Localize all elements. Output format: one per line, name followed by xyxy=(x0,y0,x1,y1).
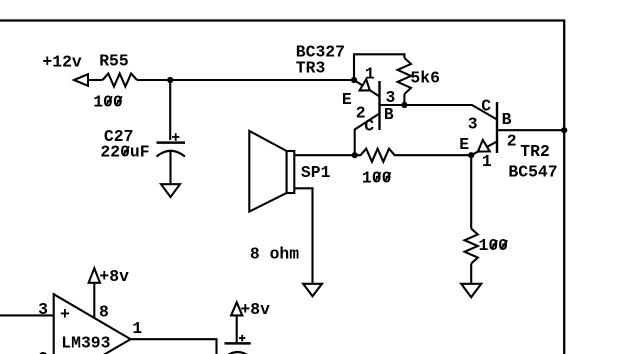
resistor 100 (emitter) xyxy=(465,229,478,264)
transistor TR2 emitter arrow xyxy=(478,140,490,152)
node junction C27 tap xyxy=(167,77,173,83)
+12v power arrow xyxy=(74,74,88,86)
svg-text:2: 2 xyxy=(38,349,48,354)
node TR2 emitter junction xyxy=(468,152,474,158)
svg-text:+8v: +8v xyxy=(240,300,270,319)
transistor TR3 base bar xyxy=(378,81,380,130)
wire input pin 3 xyxy=(0,314,54,316)
wire down to C27 xyxy=(169,80,171,140)
op-amp U1 LM393 triangle xyxy=(54,294,131,354)
svg-text:LM393: LM393 xyxy=(61,334,110,353)
resistor R55 xyxy=(103,74,138,87)
resistor 100 (base drive) xyxy=(355,149,472,162)
svg-text:+12v: +12v xyxy=(42,52,82,71)
node TR3 emitter junction xyxy=(351,77,357,83)
transistor TR2 emitter lead xyxy=(471,142,497,156)
svg-text:1: 1 xyxy=(482,152,492,171)
speaker SP1 driver xyxy=(287,151,295,193)
+8v power arrow (decoupling cap) xyxy=(231,302,242,315)
resistor 5k6 xyxy=(398,58,411,94)
slash zeros 100 base xyxy=(375,172,391,181)
svg-text:R55: R55 xyxy=(99,51,129,70)
wire speaker top terminal xyxy=(294,154,354,156)
wire op-amp output pin 1 xyxy=(131,339,217,354)
svg-text:8 ohm: 8 ohm xyxy=(250,244,299,263)
svg-text:E: E xyxy=(459,135,469,154)
node speaker/collector junction xyxy=(352,152,358,158)
svg-text:3: 3 xyxy=(38,300,48,319)
svg-text:1: 1 xyxy=(365,64,375,83)
ground (SP1) xyxy=(303,284,322,296)
+8v power arrow (op-amp) xyxy=(89,268,100,283)
wire TR2 emitter down to 100 xyxy=(470,155,472,228)
wire op-amp power pin 8 xyxy=(93,283,95,318)
transistor TR3 emitter lead xyxy=(354,80,380,97)
wire 5k6 to base rail xyxy=(403,94,405,105)
svg-text:C: C xyxy=(481,96,491,115)
ground (C27) xyxy=(161,184,180,197)
node base/right rail junction xyxy=(561,127,567,133)
wire 100 to ground xyxy=(470,264,472,284)
svg-text:B: B xyxy=(502,110,512,129)
svg-text:B: B xyxy=(384,105,394,124)
ground (emitter resistor) xyxy=(461,284,481,297)
svg-text:SP1: SP1 xyxy=(301,163,331,182)
wire +8v to cap xyxy=(236,315,238,343)
slash zero 220uF xyxy=(123,146,129,155)
wire TR3 base rail to TR2 collector xyxy=(380,105,498,120)
wire C27 to ground xyxy=(169,151,171,184)
capacitor plus mark xyxy=(239,335,245,341)
node 5k6/base junction xyxy=(401,102,407,108)
capacitor top plate xyxy=(225,342,251,345)
svg-text:2: 2 xyxy=(507,132,517,151)
capacitor C27 top plate xyxy=(157,141,186,144)
capacitor C27 plus mark xyxy=(172,133,179,141)
svg-text:8: 8 xyxy=(99,303,109,322)
wire TR3 emitter node up-over to 5k6 xyxy=(354,54,404,80)
wire R55 to TR3 emitter node xyxy=(137,79,354,81)
svg-text:1: 1 xyxy=(132,319,142,338)
svg-text:+8v: +8v xyxy=(99,267,129,286)
svg-text:TR3: TR3 xyxy=(296,58,326,77)
speaker SP1 cone xyxy=(249,131,286,212)
capacitor curved plate xyxy=(225,352,251,354)
capacitor C27 curved plate xyxy=(157,151,185,157)
svg-text:BC547: BC547 xyxy=(508,163,557,182)
transistor TR2 base bar xyxy=(496,102,498,153)
transistor TR3 emitter arrow xyxy=(360,79,370,90)
wire arrow to R55 xyxy=(87,79,103,81)
svg-text:E: E xyxy=(342,90,352,109)
svg-text:C: C xyxy=(364,116,374,135)
transistor TR3 collector lead xyxy=(355,114,380,156)
slash zeros 100 R55 xyxy=(106,96,122,105)
svg-text:3: 3 xyxy=(468,114,478,133)
svg-text:+: + xyxy=(60,305,70,324)
slash zeros 100 emitter xyxy=(492,240,508,249)
svg-text:5k6: 5k6 xyxy=(410,68,440,87)
svg-text:TR2: TR2 xyxy=(520,142,550,161)
wire speaker bottom terminal to ground xyxy=(294,188,312,283)
wire TR2 base to right rail xyxy=(497,129,564,131)
